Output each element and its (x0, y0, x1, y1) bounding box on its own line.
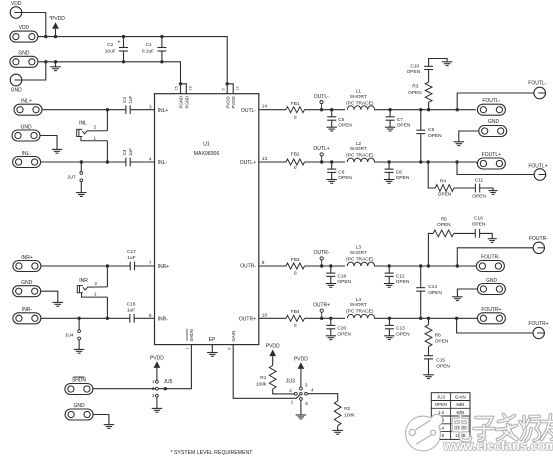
svg-text:C1: C1 (146, 42, 152, 48)
svg-text:SHORT: SHORT (350, 250, 367, 256)
svg-text:INL-: INL- (158, 160, 168, 166)
svg-text:PVDD: PVDD (231, 96, 236, 108)
svg-text:10uF: 10uF (105, 49, 116, 55)
svg-text:C18: C18 (127, 302, 136, 308)
svg-text:FB2: FB2 (291, 151, 300, 157)
svg-text:GND: GND (18, 50, 30, 56)
svg-text:U1: U1 (203, 142, 210, 148)
svg-text:OPEN: OPEN (397, 123, 411, 129)
svg-text:PVDD: PVDD (150, 355, 164, 361)
svg-text:OPEN: OPEN (472, 222, 486, 228)
svg-text:OPEN: OPEN (338, 123, 352, 129)
svg-text:1uF: 1uF (127, 307, 135, 313)
svg-text:C7: C7 (397, 117, 403, 123)
svg-text:www.elecfans.com: www.elecfans.com (443, 439, 553, 453)
svg-text:OPEN: OPEN (396, 331, 410, 337)
svg-text:JU4: JU4 (65, 333, 74, 339)
svg-text:R6: R6 (435, 333, 441, 339)
svg-text:(PC TRACE): (PC TRACE) (346, 309, 374, 315)
svg-text:C12: C12 (396, 273, 405, 279)
svg-text:*PVDD: *PVDD (49, 16, 65, 22)
svg-text:OUTR+: OUTR+ (313, 303, 330, 309)
svg-text:MAX98306: MAX98306 (194, 151, 220, 157)
svg-text:SHDN: SHDN (189, 329, 194, 341)
svg-text:FB1: FB1 (291, 101, 300, 107)
svg-text:VDD: VDD (19, 25, 30, 31)
svg-text:1: 1 (152, 379, 155, 384)
svg-text:SHORT: SHORT (350, 146, 367, 152)
svg-text:L3: L3 (356, 245, 362, 251)
svg-text:OPEN: OPEN (435, 402, 447, 407)
svg-text:R5: R5 (441, 216, 447, 222)
svg-text:OPEN: OPEN (338, 175, 352, 181)
svg-text:OUTL+: OUTL+ (313, 146, 329, 152)
svg-text:* SYSTEM LEVEL REQUIREMENT: * SYSTEM LEVEL REQUIREMENT (171, 450, 254, 456)
svg-text:0.1uF: 0.1uF (142, 49, 154, 55)
svg-text:15: 15 (175, 86, 179, 90)
svg-text:2: 2 (94, 125, 97, 130)
svg-text:5: 5 (305, 401, 308, 406)
svg-text:2: 2 (95, 281, 98, 286)
svg-text:PVDD: PVDD (225, 96, 230, 108)
svg-text:FOUTL-: FOUTL- (528, 80, 546, 86)
svg-text:1: 1 (186, 348, 190, 350)
svg-text:6dB: 6dB (456, 402, 464, 407)
svg-text:SHDN: SHDN (72, 378, 87, 384)
svg-text:0: 0 (294, 271, 297, 277)
svg-text:13: 13 (262, 156, 268, 162)
svg-text:100k: 100k (256, 382, 267, 388)
svg-text:INR-: INR- (158, 317, 169, 323)
svg-text:SHORT: SHORT (350, 302, 367, 308)
svg-text:C4: C4 (122, 149, 127, 155)
svg-text:1: 1 (93, 135, 96, 140)
svg-text:OUTR-: OUTR- (240, 264, 256, 270)
svg-text:FOUTL+: FOUTL+ (482, 152, 501, 158)
svg-text:R4: R4 (440, 178, 446, 184)
svg-text:14: 14 (262, 104, 268, 110)
svg-text:R1: R1 (260, 375, 266, 381)
svg-text:GND: GND (486, 278, 498, 284)
svg-text:C5: C5 (338, 117, 344, 123)
svg-text:OPEN: OPEN (437, 222, 451, 228)
svg-text:C11: C11 (475, 178, 484, 184)
svg-text:C6: C6 (338, 169, 344, 175)
svg-text:INL: INL (79, 120, 87, 126)
svg-text:C16: C16 (474, 216, 483, 222)
svg-text:PVDD: PVDD (294, 356, 308, 362)
svg-text:JU3: JU3 (437, 394, 445, 399)
svg-text:INL-: INL- (22, 151, 32, 157)
svg-text:2: 2 (289, 388, 292, 393)
svg-text:R2: R2 (344, 406, 350, 412)
svg-text:0: 0 (294, 165, 297, 171)
svg-text:L4: L4 (356, 297, 362, 303)
svg-text:OPEN: OPEN (408, 90, 422, 96)
svg-text:C19: C19 (337, 273, 346, 279)
svg-text:16: 16 (189, 86, 193, 90)
svg-text:FOUTR+: FOUTR+ (481, 307, 501, 313)
svg-text:FOUTR+: FOUTR+ (528, 321, 548, 327)
svg-text:(PC TRACE): (PC TRACE) (346, 100, 374, 106)
svg-text:OPEN: OPEN (436, 363, 450, 369)
svg-text:C15: C15 (436, 358, 445, 364)
svg-text:INR+: INR+ (158, 264, 170, 270)
svg-text:1uF: 1uF (128, 95, 133, 103)
svg-text:OUTR-: OUTR- (314, 250, 330, 256)
svg-text:1uF: 1uF (127, 255, 135, 261)
svg-text:INR: INR (79, 278, 88, 284)
svg-text:OUTL-: OUTL- (241, 108, 256, 114)
svg-text:C3: C3 (122, 97, 127, 103)
svg-text:1uF: 1uF (128, 148, 133, 156)
svg-text:PGND: PGND (179, 96, 184, 109)
svg-text:OPEN: OPEN (337, 331, 351, 337)
svg-text:C2: C2 (107, 42, 113, 48)
svg-text:3: 3 (305, 382, 308, 387)
svg-text:GND: GND (74, 403, 86, 409)
svg-text:C10: C10 (410, 64, 419, 70)
svg-text:INL+: INL+ (158, 108, 169, 114)
svg-text:OUTR+: OUTR+ (239, 317, 256, 323)
svg-text:C20: C20 (337, 326, 346, 332)
svg-text:4: 4 (149, 157, 152, 163)
svg-text:GND: GND (11, 88, 23, 94)
svg-text:(PC TRACE): (PC TRACE) (346, 153, 374, 159)
svg-text:FOUTR-: FOUTR- (529, 236, 548, 242)
svg-text:OPEN: OPEN (428, 290, 442, 296)
svg-text:GND: GND (21, 280, 33, 286)
svg-text:OPEN: OPEN (428, 133, 442, 139)
svg-text:GND: GND (488, 119, 500, 125)
svg-text:OPEN: OPEN (472, 193, 486, 199)
svg-text:GAIN: GAIN (455, 394, 466, 399)
svg-text:(PC TRACE): (PC TRACE) (346, 256, 374, 262)
svg-text:FOUTL-: FOUTL- (482, 98, 500, 104)
svg-text:3: 3 (152, 393, 155, 398)
svg-text:C13: C13 (396, 326, 405, 332)
svg-text:OPEN: OPEN (438, 192, 452, 198)
svg-text:C8: C8 (396, 169, 402, 175)
svg-text:R3: R3 (412, 84, 418, 90)
svg-text:FB3: FB3 (291, 257, 300, 263)
svg-text:C9: C9 (428, 127, 434, 133)
svg-text:2: 2 (152, 386, 155, 391)
svg-text:OUTL-: OUTL- (314, 94, 329, 100)
svg-text:FOUTR-: FOUTR- (481, 255, 500, 261)
svg-text:9: 9 (262, 260, 265, 266)
svg-text:OPEN: OPEN (337, 279, 351, 285)
svg-text:100k: 100k (344, 413, 355, 419)
svg-text:5: 5 (221, 88, 225, 90)
svg-text:1: 1 (94, 292, 97, 297)
svg-text:1: 1 (291, 400, 294, 405)
svg-text:L1: L1 (356, 89, 362, 95)
svg-text:C14: C14 (428, 284, 437, 290)
svg-text:0: 0 (294, 323, 297, 329)
svg-text:OPEN: OPEN (407, 69, 421, 75)
svg-text:FB4: FB4 (291, 309, 300, 315)
svg-text:EP: EP (209, 337, 216, 343)
svg-text:L2: L2 (356, 141, 362, 147)
svg-text:JU5: JU5 (164, 379, 173, 385)
svg-text:C17: C17 (127, 249, 136, 255)
svg-text:6: 6 (228, 348, 232, 350)
svg-text:4: 4 (311, 387, 314, 392)
svg-text:OUTL+: OUTL+ (240, 160, 256, 166)
svg-text:OPEN: OPEN (396, 175, 410, 181)
svg-text:JU3: JU3 (286, 379, 295, 385)
svg-text:PGND: PGND (184, 96, 189, 109)
svg-text:SHORT: SHORT (350, 94, 367, 100)
svg-text:0: 0 (294, 115, 297, 121)
svg-text:OPEN: OPEN (435, 338, 449, 344)
svg-text:3: 3 (149, 104, 152, 110)
svg-text:7: 7 (149, 261, 152, 267)
svg-text:PVDD: PVDD (266, 344, 280, 350)
svg-text:+: + (117, 40, 120, 46)
svg-text:JU7: JU7 (67, 175, 76, 181)
svg-text:12: 12 (235, 86, 239, 90)
svg-text:8: 8 (149, 313, 152, 319)
svg-text:GAIN: GAIN (231, 331, 236, 342)
svg-text:OPEN: OPEN (396, 279, 410, 285)
